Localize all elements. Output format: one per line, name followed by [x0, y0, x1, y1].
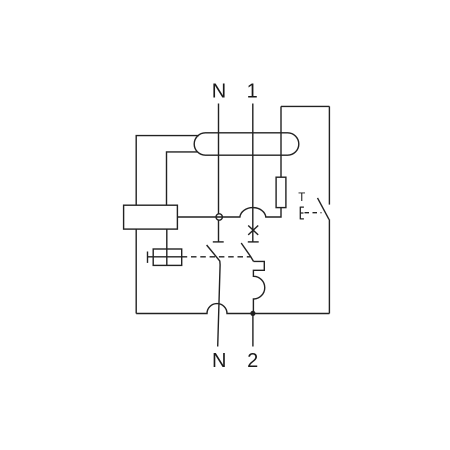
test button actuator [300, 207, 304, 220]
trip mechanism box [153, 249, 182, 265]
wire bottom horizontal (with hop over N) [136, 304, 329, 314]
overcurrent release element [253, 261, 264, 313]
svg-text:2: 2 [247, 350, 258, 372]
svg-text:1: 1 [247, 80, 258, 102]
RCD trip relay box [124, 205, 178, 229]
X overcurrent mark on line 1 [248, 226, 258, 235]
wire relay to test resistor (with hop over line 1) [177, 208, 281, 217]
svg-text:N: N [212, 80, 226, 102]
junction terminal circle [216, 214, 222, 220]
pole 2 fixed contact bar [248, 241, 259, 243]
pole 2 moving blade [241, 243, 253, 261]
wire right vertical to test switch [328, 106, 330, 204]
mechanism end stop [147, 252, 149, 263]
wire terminal 2 lead [252, 313, 254, 346]
wire secondary upper lead + left side (upper) [136, 136, 199, 206]
wire line 1 vertical (top) [252, 104, 254, 242]
pole N moving blade + lower wire [207, 245, 221, 347]
pole N fixed contact bar [213, 241, 224, 243]
mechanism mid line [148, 256, 182, 258]
wire secondary lower lead [167, 152, 198, 205]
svg-text:T: T [298, 192, 305, 204]
test switch blade [318, 198, 330, 220]
svg-text:N: N [212, 350, 226, 372]
test resistor [276, 177, 286, 207]
wire left side (lower) to bottom [135, 229, 137, 313]
mechanical linkage (dashed) [182, 256, 251, 258]
junction dot at terminal 2 [250, 311, 255, 316]
wire relay to mechanism link [166, 229, 168, 265]
wire test resistor top lead [280, 106, 282, 177]
test button linkage (dashed) [305, 212, 322, 214]
wire N pole vertical (top) [218, 104, 220, 242]
current transformer core [194, 133, 299, 155]
wire test switch lower lead [328, 219, 330, 313]
wire top-right horizontal [281, 105, 329, 107]
